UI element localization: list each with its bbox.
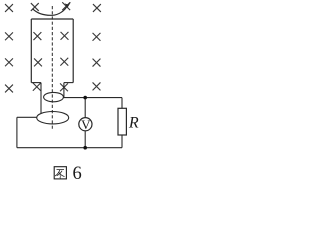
- large slip ring: [37, 112, 69, 124]
- field symbol x row2 col4: [93, 33, 101, 41]
- wire: right branch down to resistor: [121, 98, 123, 109]
- rotation direction arc: [33, 4, 69, 15]
- svg-text:V: V: [81, 117, 91, 132]
- wire: resistor to bottom: [121, 135, 123, 148]
- tube bottom right step: [64, 82, 73, 84]
- junction dot bottom: [83, 146, 87, 150]
- coil tube left wall: [30, 19, 32, 83]
- field symbol x row1 col3: [62, 2, 70, 10]
- field symbol x row3 col4: [93, 59, 101, 67]
- small slip ring: [44, 92, 64, 101]
- voltmeter V: [79, 118, 92, 131]
- wire: voltmeter branch top: [84, 98, 86, 118]
- field symbol x row2 col1: [5, 32, 13, 40]
- field symbol x row4 col3: [60, 83, 68, 91]
- wire: top brush to right branch: [64, 97, 123, 99]
- field symbol x row1 col2: [31, 3, 39, 11]
- field symbol x row3 col2: [34, 58, 42, 66]
- wire: left brush to large slip ring: [17, 116, 37, 118]
- wire: bottom rail: [17, 147, 122, 149]
- junction dot top: [83, 96, 87, 100]
- field symbol x row4 col1: [5, 85, 13, 93]
- field symbol x row4 col4: [93, 82, 101, 90]
- field symbol x row3 col1: [5, 58, 13, 66]
- wire: left branch up: [16, 117, 18, 147]
- field symbol x row2 col3: [61, 32, 69, 40]
- wire: voltmeter branch bottom: [84, 131, 86, 148]
- tube bottom left step: [31, 82, 41, 84]
- field symbol x row4 col2: [33, 83, 41, 91]
- field symbol x row3 col3: [60, 58, 68, 66]
- caption: character tu (figure): [54, 167, 66, 179]
- field symbol x row1 col1: [5, 4, 13, 12]
- resistor R body: [118, 108, 126, 135]
- rotation arrowhead: [65, 2, 72, 8]
- left lead wire down to large slip ring: [40, 83, 42, 114]
- field symbol x row1 col4: [93, 4, 101, 12]
- rotation axis (dashed): [51, 6, 53, 130]
- coil tube top edge: [31, 18, 73, 20]
- field symbol x row2 col2: [33, 32, 41, 40]
- svg-text:6: 6: [73, 164, 82, 184]
- right lead wire down to small slip ring: [63, 83, 65, 98]
- svg-text:R: R: [128, 114, 139, 131]
- coil tube right wall: [72, 19, 74, 83]
